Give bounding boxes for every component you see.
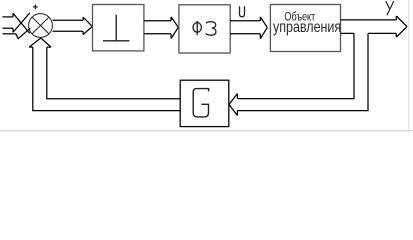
wire: output hollow arrow lower shaft segments <box>341 32 397 34</box>
wire: hollow arrow relay to FZ, shafts <box>144 21 171 34</box>
wire: feedback bus left lower (G to outer corner) <box>33 47 180 111</box>
arrowhead into G block <box>229 94 237 116</box>
wire: left input hollow arrow upper shaft <box>3 16 14 18</box>
node label u <box>240 6 245 16</box>
arrowhead into FZ block <box>171 17 178 39</box>
arrowhead toward plant block <box>260 17 267 39</box>
summing junction circle <box>29 14 53 38</box>
output label y <box>386 1 394 15</box>
page border line right (light gray) <box>408 0 410 134</box>
arrowhead into relay block <box>83 17 92 34</box>
wire: third input line with v-kink into circle <box>3 28 31 38</box>
page border line bottom (light gray) <box>0 130 413 132</box>
FZ block <box>179 5 230 53</box>
plant block (Object of control) <box>270 5 340 52</box>
left input arrow barbs <box>12 13 14 32</box>
letter F (Cyrillic Ef) of FZ <box>193 23 201 33</box>
letter Z (Cyrillic Ze) of FZ <box>206 22 216 36</box>
G block (feedback element) <box>180 80 229 126</box>
wire: feedback tap vertical outer <box>237 33 368 110</box>
up arrowhead into summing junction <box>29 38 51 47</box>
letter G glyph <box>193 89 208 117</box>
svg-text:управления: управления <box>273 18 341 36</box>
wire: hollow arrow FZ to plant, shafts <box>230 21 260 34</box>
plus sign label <box>33 5 38 10</box>
wire: left input hollow arrow lower shaft <box>3 27 14 29</box>
wire: feedback tap vertical inner <box>237 33 354 98</box>
wire: output hollow arrow upper shaft <box>341 19 397 21</box>
summing junction X cross <box>32 17 49 34</box>
output arrowhead <box>396 16 407 37</box>
wire: feedback bus left upper (G to inner corner) <box>47 47 180 99</box>
left input arrow crossed slants <box>13 13 30 34</box>
wire: hollow arrow circle to relay block, shafts <box>53 20 84 31</box>
relay block (nonlinear element) <box>93 5 144 51</box>
relay symbol (perpendicular glyph) <box>103 15 130 41</box>
